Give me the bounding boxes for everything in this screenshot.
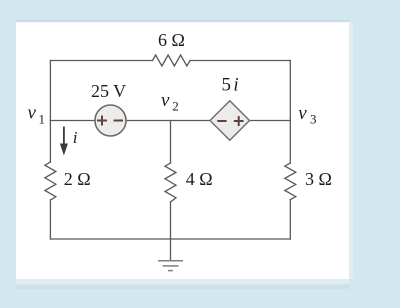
svg-text:5i: 5i [222,75,239,96]
svg-text:4 Ω: 4 Ω [186,169,213,189]
svg-text:2 Ω: 2 Ω [64,169,91,189]
wire left lower [49,200,51,239]
svg-text:v: v [28,103,37,124]
svg-text:v: v [298,103,307,124]
resistor 2ohm zigzag [45,162,56,200]
svg-text:i: i [73,128,78,147]
svg-text:v: v [161,90,170,111]
svg-text:25 V: 25 V [91,81,126,101]
wire center branch lower [170,202,172,239]
source minus sign [114,120,124,122]
svg-text:2: 2 [172,99,179,114]
resistor 3ohm zigzag [285,163,296,200]
wire center branch upper [170,121,172,164]
current arrow i [60,127,68,156]
wire top-right segment [190,60,290,62]
dependent source 5i diamond [210,101,250,141]
wire middle right [250,120,291,122]
diamond plus sign [234,116,244,126]
wire middle center [126,120,210,122]
wire left upper [49,61,51,163]
voltage source V1 25V circle [95,105,126,136]
diamond minus sign [217,120,226,122]
wire right upper [289,61,291,164]
wire right lower [289,200,291,239]
ground stem [170,239,172,260]
svg-text:1: 1 [39,112,46,127]
resistor 6ohm zigzag [153,55,191,66]
ground symbol [158,261,183,271]
source plus sign [97,116,107,126]
svg-text:3: 3 [310,112,317,127]
wire middle left [50,120,95,122]
wire top-left segment [50,60,152,62]
svg-text:6 Ω: 6 Ω [158,30,185,50]
svg-text:3 Ω: 3 Ω [305,169,332,189]
resistor 4ohm zigzag [165,163,176,202]
wire bottom [50,238,290,240]
white panel [16,22,349,279]
